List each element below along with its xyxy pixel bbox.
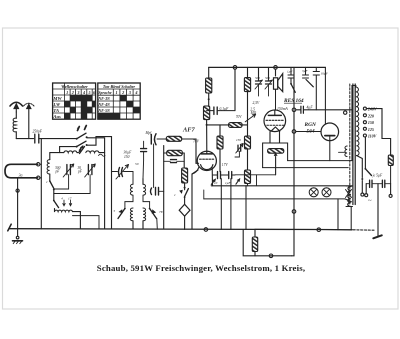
svg-text:30µF: 30µF <box>124 151 133 155</box>
svg-text:1: 1 <box>116 90 118 95</box>
svg-text:3: 3 <box>76 90 79 95</box>
svg-text:125: 125 <box>368 127 374 132</box>
svg-text:1: 1 <box>66 90 68 95</box>
svg-text:4: 4 <box>61 197 63 201</box>
svg-text:3: 3 <box>128 90 131 95</box>
svg-text:564: 564 <box>307 128 315 134</box>
svg-text:Mpf: Mpf <box>145 131 153 135</box>
svg-text:30pF: 30pF <box>77 166 83 174</box>
svg-text:500: 500 <box>265 76 270 80</box>
svg-text:500: 500 <box>255 76 260 80</box>
svg-text:150mA: 150mA <box>277 107 288 111</box>
svg-text:7E: 7E <box>159 210 164 214</box>
svg-text:10: 10 <box>214 181 218 185</box>
svg-text:Schaub, 591W Freischwinger, We: Schaub, 591W Freischwinger, Wechselstrom… <box>97 263 305 273</box>
svg-text:50: 50 <box>135 162 139 166</box>
svg-text:220: 220 <box>367 113 374 118</box>
svg-text:1µF: 1µF <box>287 70 294 74</box>
svg-text:1: 1 <box>174 193 176 197</box>
svg-text:Sprache: Sprache <box>98 91 111 95</box>
svg-text:2: 2 <box>71 90 74 95</box>
svg-text:300pF: 300pF <box>55 166 61 174</box>
svg-text:4: 4 <box>134 90 137 95</box>
svg-text:110V: 110V <box>368 134 377 139</box>
svg-text:NF-4N: NF-4N <box>97 103 110 107</box>
svg-text:240V: 240V <box>367 107 377 112</box>
svg-text:5: 5 <box>114 209 116 213</box>
svg-text:4: 4 <box>82 90 85 95</box>
svg-text:10µF: 10µF <box>321 72 329 76</box>
svg-text:3: 3 <box>79 148 81 152</box>
svg-text:150: 150 <box>368 120 374 125</box>
svg-text:70V: 70V <box>236 115 243 119</box>
svg-text:AF7: AF7 <box>182 127 196 134</box>
svg-text:~: ~ <box>368 198 372 205</box>
svg-text:MW: MW <box>52 96 62 101</box>
svg-text:4µF: 4µF <box>307 106 314 110</box>
svg-text:2: 2 <box>121 90 124 95</box>
svg-text:1: 1 <box>77 126 79 130</box>
svg-text:150: 150 <box>236 138 241 142</box>
svg-text:150: 150 <box>124 155 130 159</box>
svg-text:250pF: 250pF <box>33 130 43 134</box>
svg-text:8: 8 <box>85 125 87 129</box>
svg-text:3a: 3a <box>19 173 23 178</box>
svg-text:NF-5N: NF-5N <box>97 109 110 113</box>
svg-text:70V: 70V <box>193 140 200 144</box>
svg-text:LW: LW <box>52 102 61 107</box>
svg-text:Wellenschalter: Wellenschalter <box>61 84 88 89</box>
svg-text:Aus: Aus <box>52 114 61 119</box>
svg-text:1: 1 <box>46 180 48 184</box>
svg-text:2,5MΩ: 2,5MΩ <box>250 108 257 116</box>
svg-text:3µF: 3µF <box>302 69 309 73</box>
svg-text:Ton-Blend Schalter: Ton-Blend Schalter <box>103 84 136 89</box>
svg-text:RGN: RGN <box>304 122 317 128</box>
svg-text:je 5µF: je 5µF <box>372 173 383 177</box>
svg-text:5: 5 <box>88 90 90 95</box>
svg-text:NF-3N: NF-3N <box>97 97 110 101</box>
svg-text:17V: 17V <box>222 163 229 167</box>
svg-text:17: 17 <box>68 197 72 201</box>
svg-text:TA: TA <box>53 108 59 113</box>
svg-text:2,5V: 2,5V <box>253 101 260 106</box>
